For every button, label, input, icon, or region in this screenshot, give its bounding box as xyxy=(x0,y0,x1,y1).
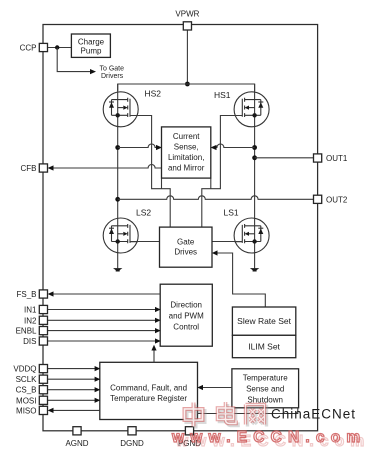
block: slew rate set xyxy=(232,307,295,335)
wire: IN2 input line xyxy=(47,319,155,321)
wire: CCP line to charge pump xyxy=(47,47,71,49)
wire: top VPWR rail xyxy=(118,84,255,91)
watermark: chinese character 电 xyxy=(218,402,239,426)
wire: right sense line into current-sense block (hop over gate line) xyxy=(216,144,255,147)
transistor HS2 xyxy=(103,92,138,127)
wire: HS1 gate drive path xyxy=(202,116,243,228)
svg-text:Limitation,: Limitation, xyxy=(168,153,204,162)
wire: OUT1 line to pin xyxy=(255,157,314,159)
pin AGND xyxy=(73,427,81,435)
transistor LS2 xyxy=(103,218,138,253)
wire: register to direction/PWM arrow xyxy=(153,350,155,362)
pin FS_B xyxy=(39,290,47,298)
wire: MOSI input line xyxy=(47,399,95,401)
svg-text:Command, Fault, and: Command, Fault, and xyxy=(110,383,187,392)
node: HS2 source sense dot xyxy=(115,145,120,150)
pin OUT1 xyxy=(314,154,322,162)
node: VPWR junction dot xyxy=(185,82,190,87)
svg-text:Control: Control xyxy=(173,322,199,331)
pin MISO xyxy=(39,406,47,414)
pin DGND xyxy=(128,427,136,435)
svg-text:Pump: Pump xyxy=(81,46,102,55)
svg-text:SCLK: SCLK xyxy=(16,375,38,384)
transistor LS1 (mirrored) xyxy=(234,218,269,253)
svg-text:MOSI: MOSI xyxy=(16,396,36,405)
svg-text:VPWR: VPWR xyxy=(175,10,199,19)
block: temperature sense and shutdown xyxy=(232,369,299,408)
block: direction and PWM control xyxy=(160,284,212,346)
watermark: chinese character 网 xyxy=(246,405,267,427)
svg-text:To Gate: To Gate xyxy=(100,65,125,72)
svg-text:HS2: HS2 xyxy=(145,89,162,99)
wire: left half-bridge column (HS2 drain to LS2 source) xyxy=(117,84,119,268)
svg-text:HS1: HS1 xyxy=(214,90,231,100)
svg-text:DIS: DIS xyxy=(23,337,36,346)
wire: to-gate-drivers arrow xyxy=(57,48,90,72)
pin PGND xyxy=(185,427,193,435)
node: OUT1 tap dot xyxy=(252,155,257,160)
block: ILIM set xyxy=(232,335,295,357)
svg-text:Drivers: Drivers xyxy=(101,73,124,80)
svg-text:ILIM Set: ILIM Set xyxy=(248,341,280,351)
wire: IN1 input line xyxy=(47,309,155,311)
wire: HS2 gate drive path xyxy=(130,116,170,228)
wire: OUT2 line to pin (hops over gate-drive risers and right column) xyxy=(118,196,314,200)
svg-text:VDDQ: VDDQ xyxy=(13,365,36,374)
ground under LS2 xyxy=(113,268,122,271)
wire: ENBL input line xyxy=(47,330,155,332)
wire: current-sense block right corner tie xyxy=(210,178,212,189)
svg-text:CCP: CCP xyxy=(20,44,37,53)
wire: MISO output line (arrow at pin) xyxy=(53,409,100,411)
svg-text:LS1: LS1 xyxy=(224,208,239,218)
outer IC boundary xyxy=(43,25,318,431)
wire: LS1 gate lead xyxy=(212,241,242,243)
wire: DIS input line xyxy=(47,340,155,342)
ground under LS1 xyxy=(250,268,259,271)
wire: VPWR drop to top rail xyxy=(186,30,188,84)
pin IN2 xyxy=(39,316,47,324)
transistor HS1 (mirrored) xyxy=(234,92,269,127)
svg-text:Temperature: Temperature xyxy=(243,373,288,382)
wire: left sense line into current-sense block (hop over gate line) xyxy=(118,144,157,147)
svg-text:CFB: CFB xyxy=(21,164,37,173)
svg-text:OUT2: OUT2 xyxy=(326,195,348,204)
pin CS_B xyxy=(39,386,47,394)
svg-text:IN2: IN2 xyxy=(24,316,37,325)
svg-text:Gate: Gate xyxy=(177,237,195,246)
pin MOSI xyxy=(39,396,47,404)
svg-text:OUT1: OUT1 xyxy=(326,154,348,163)
block: command fault and temperature register xyxy=(100,362,198,419)
svg-text:ENBL: ENBL xyxy=(16,327,37,336)
node: charge pump tap dot xyxy=(55,45,59,49)
svg-text:www.ECCN.com: www.ECCN.com xyxy=(171,429,366,446)
wire: VDDQ input line xyxy=(47,368,95,370)
pin VPWR xyxy=(183,22,191,30)
svg-text:and Mirror: and Mirror xyxy=(168,164,205,173)
svg-text:MISO: MISO xyxy=(16,406,36,415)
svg-text:LS2: LS2 xyxy=(136,208,151,218)
node: OUT2 tap dot xyxy=(115,197,120,202)
pin OUT2 xyxy=(314,195,322,203)
wire: right half-bridge column (HS1 drain to LS1 source) xyxy=(254,84,256,268)
svg-text:Sense and: Sense and xyxy=(246,384,284,393)
svg-text:Temperature Register: Temperature Register xyxy=(110,394,187,403)
pin IN1 xyxy=(39,305,47,313)
svg-text:IN1: IN1 xyxy=(24,306,37,315)
wire: CFB feedback line (hop over HS2 gate line, arrow at pin) xyxy=(53,165,162,168)
block: gate drives xyxy=(160,227,213,267)
pin VDDQ xyxy=(39,365,47,373)
svg-text:Direction: Direction xyxy=(170,301,202,310)
capacitor charge pump block xyxy=(71,34,110,57)
wire: current-sense block left corner tie xyxy=(161,178,163,189)
wire: SCLK input line xyxy=(47,378,95,380)
wire: slew-rate-set to gate drives xyxy=(217,253,265,307)
pin ENBL xyxy=(39,327,47,335)
svg-text:DGND: DGND xyxy=(120,439,144,448)
svg-text:Charge: Charge xyxy=(78,37,105,46)
svg-text:ChinaECNet: ChinaECNet xyxy=(271,407,356,422)
wire: temperature block to register arrow xyxy=(203,387,232,389)
pin CCP xyxy=(39,43,47,51)
svg-text:Sense,: Sense, xyxy=(174,143,199,152)
watermark: chinese character 中 xyxy=(185,403,205,429)
op block: current sense, limitation and mirror xyxy=(162,127,211,178)
node: HS1 source sense dot xyxy=(252,145,257,150)
pin DIS xyxy=(39,337,47,345)
svg-text:Slew Rate Set: Slew Rate Set xyxy=(237,316,291,326)
wire: FS_B output line (arrow at pin) xyxy=(53,293,160,295)
wire: register to temperature block lower link xyxy=(198,408,298,414)
svg-text:Current: Current xyxy=(173,132,200,141)
wire: CS_B input line xyxy=(47,389,95,391)
pin SCLK xyxy=(39,375,47,383)
svg-text:CS_B: CS_B xyxy=(16,386,37,395)
wire: LS2 gate lead xyxy=(130,241,160,243)
pin CFB xyxy=(39,164,47,172)
svg-text:and PWM: and PWM xyxy=(169,311,204,320)
svg-text:FS_B: FS_B xyxy=(16,290,36,299)
svg-text:Drives: Drives xyxy=(174,248,197,257)
svg-text:AGND: AGND xyxy=(65,439,88,448)
